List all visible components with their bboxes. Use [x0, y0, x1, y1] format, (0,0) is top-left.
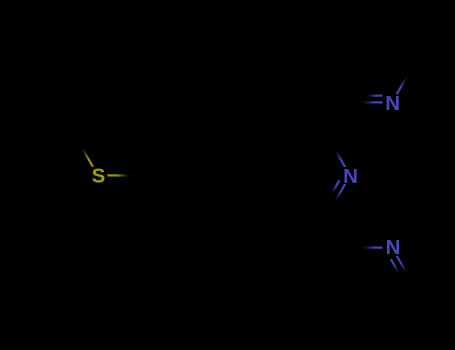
inter-ring bond central-top pyridine — [329, 102, 350, 139]
phenyl bond C5-C6 — [161, 211, 203, 213]
central pyridine double bond C5=C4 — [266, 176, 289, 212]
central pyridine bond C4-C3 — [266, 139, 287, 175]
central pyridine double bond C3=C2 — [287, 139, 329, 146]
bottom pyridine bond C4-C3 — [329, 284, 350, 320]
bond S-CH3 (methylthio) — [77, 139, 93, 167]
top pyridine double bond C6=C5 — [390, 30, 413, 66]
atom label N (bottom pyridine nitrogen) — [386, 236, 401, 259]
top pyridine double bond C4=C3 — [329, 30, 352, 66]
svg-text:N: N — [343, 165, 358, 188]
top pyridine bond C5-C4 — [350, 29, 392, 31]
bottom pyridine double bond C3=C2 — [329, 248, 352, 284]
central pyridine bond C2-N1 — [329, 139, 345, 167]
atom label N (central pyridine nitrogen) — [343, 165, 358, 188]
top pyridine double bond C2=N1 — [350, 96, 383, 103]
central pyridine bond C6-C5 — [287, 211, 329, 213]
phenyl double bond C4=C5 — [201, 176, 224, 212]
central pyridine double bond N1=C6 — [327, 180, 345, 212]
inter-ring bond central-bottom pyridine — [329, 212, 350, 248]
phenyl bond C3-C4 — [203, 139, 224, 175]
svg-text:S: S — [92, 165, 106, 188]
biaryl bond phenyl-pyridine — [224, 174, 266, 176]
atom label S (thioether sulfur) — [91, 165, 106, 188]
top pyridine bond C3-C2 — [329, 66, 350, 102]
bottom pyridine bond C2-N1 — [350, 247, 383, 249]
phenyl double bond C2=C3 — [161, 139, 203, 146]
bottom pyridine double bond N1=C6 — [391, 256, 413, 284]
svg-text:N: N — [385, 92, 400, 115]
phenyl bond C1-C2 — [140, 139, 161, 175]
bond S-C1 (S-phenyl) — [108, 174, 141, 176]
bottom pyridine bond C6-C5 — [392, 284, 413, 320]
top pyridine bond N1-C6 — [397, 66, 413, 94]
bottom pyridine double bond C5=C4 — [350, 314, 392, 321]
phenyl double bond C6=C1 — [140, 176, 163, 212]
atom label N (top pyridine nitrogen) — [385, 92, 400, 115]
svg-text:N: N — [386, 236, 401, 259]
